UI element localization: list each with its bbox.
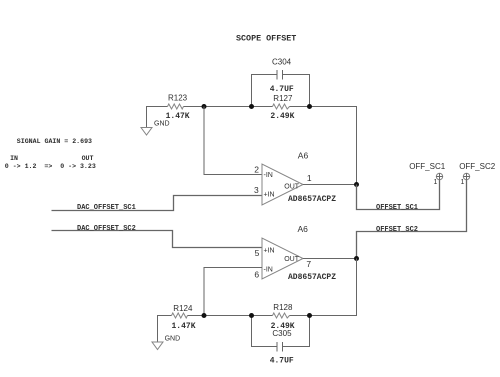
resistor R123 bbox=[166, 94, 190, 121]
svg-text:1: 1 bbox=[434, 179, 438, 186]
svg-text:1.47K: 1.47K bbox=[172, 322, 196, 331]
svg-text:IN: IN bbox=[10, 155, 18, 162]
svg-text:1: 1 bbox=[461, 179, 465, 186]
svg-text:OUT: OUT bbox=[284, 183, 300, 190]
svg-text:2: 2 bbox=[254, 165, 259, 175]
svg-text:R124: R124 bbox=[173, 304, 193, 313]
junction bottom A bbox=[202, 313, 207, 318]
wire bottom right stub bbox=[290, 315, 310, 317]
svg-text:C304: C304 bbox=[272, 58, 292, 67]
svg-text:2.49K: 2.49K bbox=[270, 112, 294, 121]
svg-text:R123: R123 bbox=[168, 94, 188, 103]
net OFFSET_SC2 bbox=[357, 180, 467, 259]
note SIGNAL GAIN bbox=[5, 138, 96, 170]
junction top A bbox=[202, 104, 207, 109]
junction top B bbox=[249, 104, 254, 109]
wire to pin 2 bbox=[204, 107, 262, 175]
svg-text:GND: GND bbox=[165, 336, 181, 343]
wire to pin 6 bbox=[204, 268, 262, 316]
test point OFF_SC1 bbox=[409, 162, 446, 186]
ground GND2 bbox=[152, 316, 180, 350]
junction bottom B bbox=[249, 313, 254, 318]
svg-text:A6: A6 bbox=[298, 150, 309, 160]
op-amp U2 bottom A6 bbox=[254, 224, 336, 282]
svg-text:6: 6 bbox=[254, 270, 259, 280]
junction top C bbox=[307, 104, 312, 109]
svg-text:1.47K: 1.47K bbox=[166, 112, 190, 121]
resistor R128 bbox=[271, 303, 295, 331]
test point OFF_SC2 bbox=[459, 162, 496, 186]
svg-text:DAC_OFFSET_SC2: DAC_OFFSET_SC2 bbox=[77, 225, 136, 233]
svg-text:+IN: +IN bbox=[264, 192, 275, 199]
svg-text:AD8657ACPZ: AD8657ACPZ bbox=[288, 195, 336, 204]
junction bottom C bbox=[307, 313, 312, 318]
svg-text:A6: A6 bbox=[298, 224, 309, 234]
capacitor C305 bbox=[252, 316, 310, 366]
svg-text:R128: R128 bbox=[273, 303, 293, 312]
op-amp U1 top A6 bbox=[254, 150, 336, 205]
resistor R127 bbox=[270, 94, 294, 121]
net DAC_OFFSET_SC2 bbox=[52, 225, 263, 248]
wire bottom main bbox=[188, 315, 273, 317]
svg-text:OUT: OUT bbox=[284, 256, 300, 263]
svg-text:7: 7 bbox=[306, 259, 311, 269]
junction output 2 bbox=[354, 256, 359, 261]
svg-text:R127: R127 bbox=[273, 94, 293, 103]
capacitor C304 bbox=[252, 58, 310, 107]
resistor R124 bbox=[172, 304, 196, 331]
svg-text:OFFSET_SC1: OFFSET_SC1 bbox=[376, 204, 418, 212]
svg-text:OFF_SC2: OFF_SC2 bbox=[459, 162, 496, 171]
svg-text:DAC_OFFSET_SC1: DAC_OFFSET_SC1 bbox=[77, 204, 136, 212]
net DAC_OFFSET_SC1 bbox=[52, 196, 263, 213]
wire top main bbox=[184, 106, 273, 108]
svg-text:-IN: -IN bbox=[264, 172, 273, 179]
svg-text:0 -> 1.2 => 0 -> 3.23: 0 -> 1.2 => 0 -> 3.23 bbox=[5, 163, 96, 170]
wire output 2 bbox=[303, 258, 357, 260]
svg-text:AD8657ACPZ: AD8657ACPZ bbox=[288, 273, 336, 282]
svg-text:OUT: OUT bbox=[82, 155, 94, 162]
wire top right to feedback corner bbox=[290, 107, 357, 185]
svg-text:4.7UF: 4.7UF bbox=[270, 357, 294, 366]
svg-text:SIGNAL GAIN = 2.693: SIGNAL GAIN = 2.693 bbox=[17, 138, 92, 145]
wire output 1 bbox=[303, 184, 357, 186]
net OFFSET_SC1 bbox=[357, 180, 440, 212]
svg-text:SCOPE OFFSET: SCOPE OFFSET bbox=[236, 34, 296, 44]
junction output 1 bbox=[354, 182, 359, 187]
svg-text:C305: C305 bbox=[272, 329, 292, 338]
wire feedback bottom bbox=[310, 259, 357, 316]
svg-text:+IN: +IN bbox=[264, 248, 275, 255]
svg-text:GND: GND bbox=[154, 120, 170, 127]
svg-text:OFF_SC1: OFF_SC1 bbox=[409, 162, 446, 171]
svg-text:5: 5 bbox=[255, 248, 260, 258]
svg-text:3: 3 bbox=[254, 185, 259, 195]
svg-text:OFFSET_SC2: OFFSET_SC2 bbox=[376, 226, 418, 234]
svg-text:1: 1 bbox=[307, 173, 312, 183]
ground GND1 bbox=[141, 107, 170, 136]
svg-text:4.7UF: 4.7UF bbox=[270, 85, 294, 94]
svg-text:-IN: -IN bbox=[264, 266, 273, 273]
